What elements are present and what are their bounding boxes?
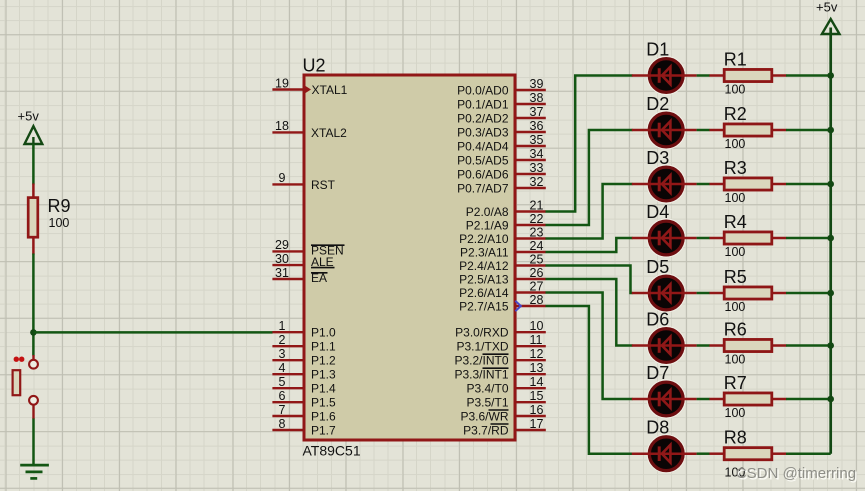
pin 7 P1.6 [272,403,336,424]
svg-text:CSDN @timerring: CSDN @timerring [736,465,856,482]
pin 1 P1.0 [272,319,336,340]
svg-text:R7: R7 [724,373,747,393]
svg-text:P2.1/A9: P2.1/A9 [466,218,509,232]
LED D5 [632,257,697,313]
svg-text:D3: D3 [646,148,669,168]
pin 9 RST [272,171,335,192]
pin 31 EA [272,266,327,285]
pin 27 P2.6/A14 [459,279,546,300]
svg-text:+5v: +5v [816,0,838,14]
svg-text:24: 24 [530,239,544,253]
svg-text:100: 100 [725,82,746,96]
svg-text:R5: R5 [724,267,747,287]
LED D8 [632,418,697,474]
svg-text:15: 15 [530,389,544,403]
svg-text:9: 9 [279,171,286,185]
svg-text:100: 100 [725,352,746,366]
svg-text:P3.5/T1: P3.5/T1 [466,396,508,410]
svg-text:33: 33 [530,161,544,175]
wire D2 to R2 [697,129,710,132]
svg-text:1: 1 [279,319,286,333]
svg-text:13: 13 [530,361,544,375]
svg-text:P0.0/AD0: P0.0/AD0 [457,83,509,97]
pin 2 P1.1 [272,333,336,354]
svg-text:34: 34 [530,147,544,161]
svg-text:100: 100 [725,406,746,420]
svg-text:D4: D4 [646,202,669,222]
wire pin25 to D5 [546,266,633,294]
pin 6 P1.5 [272,389,336,410]
svg-text:P1.0: P1.0 [311,326,336,340]
pin 32 P0.7/AD7 [457,175,546,196]
pin 4 P1.3 [272,361,336,382]
svg-text:D6: D6 [646,310,669,330]
pin 37 P0.2/AD2 [457,105,546,126]
wire pin22 to D2 [546,130,633,225]
svg-text:P2.5/A13: P2.5/A13 [459,272,509,286]
wire D5 to R5 [697,292,710,295]
junction node D2 rail [827,127,834,134]
svg-text:D8: D8 [646,418,669,438]
svg-text:P3.7/RD: P3.7/RD [463,423,509,437]
watermark [736,465,858,484]
svg-text:P3.0/RXD: P3.0/RXD [455,326,509,340]
svg-text:35: 35 [530,133,544,147]
junction node D5 rail [827,290,834,297]
svg-text:P1.2: P1.2 [311,354,336,368]
resistor R4 [709,212,786,259]
svg-text:12: 12 [530,347,544,361]
wire R5 to +5v rail [786,292,831,295]
pin 14 P3.4/T0 [466,375,545,396]
pin 16 P3.6/WR [460,403,545,424]
svg-text:26: 26 [530,266,544,280]
svg-text:6: 6 [279,389,286,403]
svg-text:11: 11 [530,333,543,347]
svg-text:4: 4 [279,361,286,375]
svg-text:P0.6/AD6: P0.6/AD6 [457,167,509,181]
svg-text:U2: U2 [303,56,326,76]
svg-text:17: 17 [530,417,544,431]
wire R7 to +5v rail [786,398,831,401]
junction node pin1 [30,329,37,336]
pin 25 P2.4/A12 [459,252,546,273]
pin 5 P1.4 [272,375,336,396]
wire R6 to +5v rail [786,344,831,347]
svg-text:10: 10 [530,319,544,333]
wire R2 to +5v rail [786,129,831,132]
svg-text:P2.2/A10: P2.2/A10 [459,232,509,246]
wire pin21 to D1 [546,76,633,212]
svg-text:R3: R3 [724,158,747,178]
svg-text:P0.2/AD2: P0.2/AD2 [457,111,509,125]
junction node D1 rail [827,72,834,79]
svg-text:P0.7/AD7: P0.7/AD7 [457,181,509,195]
wire D8 to R8 [697,452,710,455]
wire D4 to R4 [697,237,710,240]
wire R3 to +5v rail [786,183,831,186]
svg-text:31: 31 [275,266,289,280]
pin 38 P0.1/AD1 [457,91,546,112]
LED D7 [632,363,697,419]
wire D3 to R3 [697,183,710,186]
svg-text:30: 30 [275,252,289,266]
pin 30 ALE [272,252,334,269]
svg-text:R8: R8 [724,428,747,448]
svg-text:RST: RST [311,178,336,192]
svg-text:P3.1/TXD: P3.1/TXD [456,340,508,354]
svg-text:ALE: ALE [311,255,334,269]
pin 21 P2.0/A8 [466,198,546,219]
LED D1 [632,40,697,96]
svg-text:21: 21 [530,198,544,212]
junction node D7 rail [827,396,834,403]
pin 28 P2.7/A15 [459,293,546,314]
pin 26 P2.5/A13 [459,266,546,287]
pin 17 P3.7/RD [463,417,546,438]
svg-text:R4: R4 [724,212,747,232]
resistor R2 [709,104,786,151]
pin 33 P0.6/AD6 [457,161,546,182]
LED D3 [632,148,697,204]
wire R9 to button [32,254,35,356]
svg-text:P2.6/A14: P2.6/A14 [459,286,509,300]
LED D2 [632,94,697,150]
svg-text:23: 23 [530,225,544,239]
svg-text:D5: D5 [646,257,669,277]
wire R1 to +5v rail [786,74,831,77]
svg-text:D1: D1 [646,40,669,60]
LED D6 [632,310,697,366]
wire pin23 to D3 [546,184,633,239]
pin 36 P0.3/AD3 [457,119,546,140]
junction node D6 rail [827,342,834,349]
pin 10 P3.0/RXD [455,319,546,340]
svg-text:8: 8 [279,417,286,431]
svg-text:P0.1/AD1: P0.1/AD1 [457,97,509,111]
power +5v right rail [816,0,840,454]
svg-text:P2.7/A15: P2.7/A15 [459,299,509,313]
svg-text:5: 5 [279,375,286,389]
pin 3 P1.2 [272,347,336,368]
svg-text:P0.3/AD3: P0.3/AD3 [457,125,509,139]
svg-text:P1.3: P1.3 [311,368,336,382]
pin 34 P0.5/AD5 [457,147,546,168]
svg-text:7: 7 [279,403,286,417]
pin 39 P0.0/AD0 [457,77,546,98]
svg-text:P0.5/AD5: P0.5/AD5 [457,153,509,167]
svg-text:100: 100 [49,216,70,230]
svg-text:D7: D7 [646,363,669,383]
svg-text:37: 37 [530,105,544,119]
svg-text:P0.4/AD4: P0.4/AD4 [457,139,509,153]
pin 12 P3.2/INT0 [454,347,545,368]
svg-text:29: 29 [275,238,289,252]
resistor R7 [709,373,786,420]
svg-text:XTAL2: XTAL2 [311,126,347,140]
pin 11 P3.1/TXD [456,333,545,354]
pin 19 XTAL1 [272,76,347,97]
svg-text:25: 25 [530,252,544,266]
junction node D4 rail [827,235,834,242]
pin 23 P2.2/A10 [459,225,546,246]
svg-text:P1.5: P1.5 [311,396,336,410]
svg-text:27: 27 [530,279,544,293]
push button [13,355,38,419]
svg-text:39: 39 [530,77,544,91]
wire pin27 to D7 [546,293,633,400]
svg-text:32: 32 [530,175,544,189]
svg-text:P1.6: P1.6 [311,409,336,423]
svg-text:38: 38 [530,91,544,105]
wire pin28 to D8 [546,306,633,454]
svg-text:14: 14 [530,375,544,389]
svg-text:2: 2 [279,333,286,347]
svg-text:XTAL1: XTAL1 [312,83,348,97]
svg-text:36: 36 [530,119,544,133]
ground [20,465,49,478]
svg-text:P1.4: P1.4 [311,382,336,396]
resistor R5 [709,267,786,314]
svg-text:D2: D2 [646,94,669,114]
wire R8 to +5v rail [786,452,831,455]
power +5v left [18,109,43,144]
pin 18 XTAL2 [272,119,347,140]
svg-text:P2.3/A11: P2.3/A11 [460,245,509,259]
svg-text:100: 100 [725,191,746,205]
junction node D3 rail [827,181,834,188]
pin 8 P1.7 [272,417,336,438]
resistor R9 [28,184,70,255]
svg-text:P2.0/A8: P2.0/A8 [466,205,509,219]
svg-text:AT89C51: AT89C51 [303,443,361,459]
svg-text:28: 28 [530,293,544,307]
wire D1 to R1 [697,74,710,77]
svg-text:R9: R9 [48,196,71,216]
chip U2 body [303,56,516,459]
resistor R6 [709,319,786,366]
LED D4 [632,202,697,258]
svg-text:R1: R1 [724,49,747,69]
svg-text:R2: R2 [724,104,747,124]
svg-text:19: 19 [275,76,289,90]
svg-text:P2.4/A12: P2.4/A12 [459,259,509,273]
wire pin24 to D4 [546,238,633,252]
resistor R8 [709,428,786,480]
svg-text:P1.1: P1.1 [311,340,336,354]
pin 35 P0.4/AD4 [457,133,546,154]
svg-text:100: 100 [725,137,746,151]
wire junction to pin P1.0 [33,331,272,334]
svg-text:100: 100 [725,245,746,259]
svg-text:P3.6/WR: P3.6/WR [460,409,508,423]
wire button to ground [32,419,35,466]
wire pin26 to D6 [546,279,633,346]
pin 15 P3.5/T1 [466,389,545,410]
pin 13 P3.3/INT1 [454,361,545,382]
wire D7 to R7 [697,398,710,401]
svg-text:P1.7: P1.7 [311,423,336,437]
svg-text:P3.3/INT1: P3.3/INT1 [454,368,508,382]
resistor R1 [709,49,786,96]
pin 24 P2.3/A11 [460,239,546,260]
svg-text:+5v: +5v [18,109,40,124]
svg-text:100: 100 [725,300,746,314]
resistor R3 [709,158,786,205]
wire +5v to R9 [32,144,35,185]
svg-text:P3.2/INT0: P3.2/INT0 [454,354,508,368]
svg-text:16: 16 [530,403,544,417]
svg-text:3: 3 [279,347,286,361]
wire D6 to R6 [697,344,710,347]
wire R4 to +5v rail [786,237,831,240]
pin 29 PSEN [272,238,344,257]
pin 22 P2.1/A9 [466,212,546,233]
svg-text:R6: R6 [724,319,747,339]
svg-text:22: 22 [530,212,544,226]
svg-text:18: 18 [275,119,289,133]
svg-text:P3.4/T0: P3.4/T0 [466,382,508,396]
